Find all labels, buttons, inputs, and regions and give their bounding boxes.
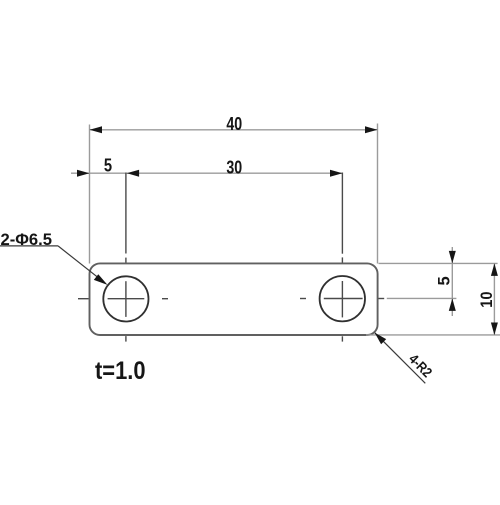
centerline vertical left hole (also extension for dims)	[125, 173, 127, 342]
leader line 2-phi6.5	[58, 246, 104, 282]
extension line top-right (plate top edge extended)	[379, 262, 498, 264]
leader underline 2-phi6.5	[0, 245, 58, 247]
arrow 30 right (tip at x=342.5 pointing right)	[330, 170, 343, 177]
svg-text:2-Φ6.5: 2-Φ6.5	[1, 231, 53, 249]
svg-text:t=1.0: t=1.0	[95, 357, 146, 385]
centerline vertical right hole	[341, 173, 343, 342]
arrow 40 left	[90, 126, 103, 133]
svg-text:5: 5	[104, 155, 112, 176]
centerline horizontal right hole	[300, 298, 384, 300]
svg-text:30: 30	[226, 156, 242, 177]
arrow 10 bottom (tip down)	[491, 323, 498, 336]
plate outline (rounded rectangle)	[90, 263, 378, 335]
dimension line 5 (right side, vertical)	[451, 247, 453, 316]
arrow 5 (outside, tip at x=89.5 pointing right)	[77, 170, 90, 177]
hole left (2-phi6.5)	[103, 276, 148, 321]
extension line left (x=89.5)	[89, 125, 91, 264]
arrow 30 left (tip at x=126.6 pointing left)	[127, 170, 140, 177]
svg-text:5: 5	[436, 276, 454, 285]
dimension line 40	[90, 129, 378, 131]
extension line centerline right (for dim 5)	[387, 297, 457, 299]
arrow 5R bottom (outside below, tip up at centerline)	[449, 298, 456, 311]
hole right (2-phi6.5)	[320, 276, 365, 321]
leader arrow 2-phi6.5 (tip at circle edge)	[94, 274, 108, 285]
extension line bottom-right (plate bottom edge extended)	[366, 334, 500, 336]
dimension line 5 and 30	[71, 172, 343, 174]
arrow 5R top (outside above, tip down at plate top)	[449, 251, 456, 264]
centerline horizontal left hole	[78, 298, 168, 300]
extension line right (x=377.5)	[377, 124, 379, 264]
leader arrow 4-R2 (tip at plate corner)	[375, 333, 387, 345]
svg-text:40: 40	[226, 113, 242, 134]
leader line 4-R2	[375, 333, 426, 384]
arrow 10 top (tip up)	[491, 263, 498, 276]
arrow 40 right	[365, 126, 378, 133]
svg-text:10: 10	[478, 291, 496, 307]
dimension line 10 (far right, vertical)	[493, 263, 495, 335]
